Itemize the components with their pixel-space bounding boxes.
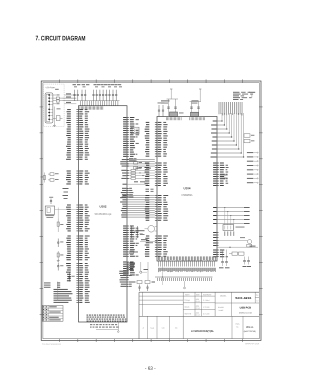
svg-text:U104: U104: [184, 186, 191, 190]
U102 left pin 31: [66, 183, 89, 184]
U104 left pin 47: [145, 251, 168, 252]
U104 right pin 12: [213, 250, 224, 251]
U104 left pin 46: [145, 249, 166, 250]
svg-text:H.S.LEE: H.S.LEE: [203, 307, 210, 309]
title block bottom row texts: [143, 323, 257, 333]
U102 left pin 51: [67, 248, 89, 249]
ladder vertical net labels: [219, 102, 243, 115]
U104 left pin 16: [146, 156, 167, 157]
U102 bottom pin name rows: [87, 315, 127, 322]
left lower vertical wire: [57, 282, 59, 301]
U102 top pin names: [80, 106, 104, 109]
svg-text:SCX-4216: SCX-4216: [235, 296, 251, 300]
U104 left pin 30: [145, 200, 166, 201]
U102 left pin 59: [67, 267, 87, 268]
U102 right pin 6: [123, 128, 134, 129]
U102 right pin 35: [123, 262, 133, 263]
U102 left pin 30: [68, 181, 88, 182]
capacitor C105: [84, 90, 86, 95]
U104 left pin 23: [145, 176, 167, 177]
U102 left pin 64: [67, 278, 88, 279]
corridor filler rows upper: [129, 158, 154, 192]
capacitor C131: [136, 226, 142, 238]
U104 left pin 10: [146, 142, 167, 143]
U102 right pin 39: [123, 270, 134, 271]
svg-text:K.H.LEE: K.H.LEE: [203, 313, 210, 315]
U102 left pin 38: [67, 217, 88, 218]
USB port group dashed outline: [44, 84, 65, 126]
U104 left pin 37: [146, 215, 169, 216]
U102 left pin 5: [67, 118, 88, 119]
U102 bottom wire and test point: [96, 322, 119, 332]
U104 left pin 3: [145, 126, 167, 127]
U102 left pin 58: [66, 265, 88, 266]
U102 left pin 6: [67, 120, 88, 121]
U104 right pin 9: [213, 181, 227, 182]
U102 XTAL wire rows: [120, 159, 155, 166]
U102 right pin 25: [123, 236, 138, 237]
U104 left pin 7: [145, 135, 168, 136]
U102 left pin 2: [67, 111, 90, 112]
U102 left pin 37: [66, 215, 89, 216]
U102 left pin 55: [66, 257, 89, 258]
U104 right pin 15: [213, 256, 228, 257]
U102 right pin 15: [123, 147, 135, 148]
wire USB detect to U102: [64, 103, 76, 105]
wire USB D+ to U102: [63, 100, 77, 102]
U102 left pin 9: [67, 126, 88, 127]
U102 right pin 18: [123, 154, 137, 155]
svg-text:Check: Check: [184, 306, 189, 308]
bottom test point TP1: [184, 281, 186, 289]
U102 left pin 1: [67, 109, 87, 110]
U102 right pin 30: [123, 247, 134, 248]
U102 right pin 16: [123, 149, 133, 150]
U102 left pin 39: [67, 220, 89, 221]
resistor R107: [57, 251, 63, 259]
U104 right pin 7: [213, 176, 224, 177]
svg-text:BOARD: BOARD: [218, 306, 225, 309]
U102 right pin 41: [123, 274, 139, 275]
U104 bottom pin stubs: [159, 261, 215, 267]
capacitor C103: [77, 90, 79, 95]
title block header texts: [184, 293, 211, 316]
U104 left pin 33: [145, 206, 166, 207]
crystal X101 circuit: [167, 89, 179, 117]
U102 right pin 5: [123, 126, 134, 127]
wire USB VBUS to U102: [64, 94, 76, 96]
U104 left pin 28: [145, 195, 168, 196]
U102 left pin 67: [44, 285, 89, 286]
svg-text:2003: 2003: [196, 306, 200, 308]
U102 left pin 19: [67, 148, 88, 149]
U104 left pin 11: [145, 144, 167, 145]
U104 left pin 17: [145, 163, 167, 164]
connector CN101 body: [45, 93, 53, 123]
U102 left pin 45: [67, 236, 89, 237]
U104 left pin 19: [145, 167, 168, 168]
svg-text:NAME: NAME: [219, 309, 224, 312]
U102 right pin 31: [123, 249, 135, 250]
U102 left pin 32: [67, 205, 87, 206]
labels X1 CLKIN: [220, 175, 228, 179]
U102 left pin 24: [66, 159, 88, 160]
U104 left pin 14: [145, 151, 166, 152]
U102 right pin 20: [123, 226, 134, 227]
U102 left pin 22: [66, 154, 89, 155]
U104 left pin 43: [146, 242, 166, 243]
U102 left pin 20: [67, 150, 88, 151]
U102 right pin 36: [123, 264, 135, 265]
U102 left pin 75: [54, 302, 90, 303]
U102 left pin 14: [68, 137, 90, 138]
U104 right pin 1: [213, 163, 224, 164]
svg-text:MODEL: MODEL: [220, 295, 226, 297]
net labels left middle: [63, 188, 69, 199]
capacitor C130: [130, 226, 136, 238]
U104 left pin 48: [145, 254, 167, 255]
capacitor C104: [81, 90, 83, 95]
U102 left pin 8: [67, 124, 88, 125]
U104 left pin 39: [146, 220, 168, 221]
resistor R112: [130, 251, 139, 254]
wire USB D- to U102: [63, 97, 77, 99]
corridor bottom components: [132, 262, 156, 291]
ferrite bead L101 on D- line: [53, 97, 56, 99]
capacitor C102 shell: [56, 116, 60, 121]
title block: [139, 292, 259, 339]
svg-text:2003: 2003: [196, 299, 200, 301]
U104 left pin 4: [145, 129, 167, 130]
capacitors C140 C141: [243, 257, 252, 268]
capacitor C102: [74, 90, 76, 95]
resistor R111 group: [134, 162, 143, 170]
right net label column: [247, 152, 258, 183]
U104 top pin names group A: [166, 117, 181, 120]
capacitor C109: [102, 90, 104, 95]
ferrite filter boxes: [229, 252, 244, 255]
capacitor C120: [57, 239, 63, 248]
switch SW101 box: [45, 206, 54, 218]
resistor array RA104: [223, 225, 245, 231]
U104 right pin 10: [213, 183, 228, 184]
U102 left pin 73: [54, 298, 89, 299]
U102 left pin 17: [67, 144, 88, 145]
USB net labels mid: [66, 93, 71, 103]
U102 left pin 41: [66, 224, 88, 225]
U104 right pin 13: [213, 252, 223, 253]
U102 left pin 35: [67, 211, 88, 212]
capacitor C110: [105, 90, 107, 95]
capacitor C106: [93, 90, 95, 95]
U102 right pin 1: [123, 117, 134, 118]
svg-text:03.14: 03.14: [196, 314, 200, 316]
U102 left pin 47: [67, 240, 88, 241]
U102 right pin 2: [123, 119, 139, 120]
resistor R121: [244, 139, 254, 142]
row cluster below resistor column: [123, 181, 149, 184]
capacitor C107: [96, 90, 98, 95]
U102 left pin 21: [67, 152, 89, 153]
U104 left pin 34: [145, 209, 168, 210]
svg-text:USB PCB: USB PCB: [240, 306, 251, 309]
U102 left pin 16: [67, 142, 87, 143]
svg-text:R01.1.1: R01.1.1: [246, 327, 254, 329]
U104 left pin 25: [145, 181, 167, 182]
U102 left pin 66: [44, 282, 89, 283]
model name text: [220, 294, 259, 302]
svg-text:KS8995MA: KS8995MA: [181, 194, 193, 197]
U102 left pin 72: [54, 295, 90, 296]
U102 left pin 3: [67, 113, 88, 114]
page title: [35, 35, 85, 42]
U104 left pin 22: [146, 174, 166, 175]
U102 right pin 34: [123, 255, 138, 258]
U104 right inner names ladder band: [211, 121, 217, 158]
svg-text:KS0917A 4X16: KS0917A 4X16: [239, 311, 252, 314]
svg-text:2003: 2003: [196, 312, 200, 314]
U104 right address ladder wires: [217, 113, 244, 158]
U104 left pin 13: [145, 149, 165, 150]
crystal X102 circuit: [190, 89, 202, 117]
U102 left pin 63: [67, 276, 88, 277]
resistor R101: [57, 107, 61, 110]
U102 left pin 54: [67, 255, 88, 256]
U102 left pin 29: [66, 179, 88, 180]
U102 left pin 36: [67, 213, 88, 214]
svg-text:USB PORT: USB PORT: [46, 87, 56, 89]
U102 right pin 12: [123, 141, 135, 142]
U102 left pin 68: [44, 287, 89, 288]
U104 right pin 11: [213, 185, 224, 186]
U104 left pin 15: [146, 153, 167, 154]
svg-text:Unit: Unit: [162, 326, 165, 329]
svg-text:7. CIRCUIT DIAGRAM: 7. CIRCUIT DIAGRAM: [35, 35, 85, 42]
svg-text:A: A: [143, 326, 145, 329]
U104 left pin 36: [145, 213, 167, 214]
U102 right pin 13: [123, 143, 139, 144]
resistor pack RP102: [131, 127, 139, 134]
U102 left pin 48: [66, 242, 88, 243]
U104 left pin 38: [145, 218, 167, 219]
resistor R115 row: [140, 239, 157, 243]
U102 left pin 62: [67, 274, 88, 275]
wire VBUS: [53, 94, 56, 96]
U102 right pin 26: [123, 238, 137, 239]
IC U104 body: [157, 117, 217, 262]
U102 inner bottom-right pin names: [119, 271, 131, 287]
U102 right pin 27: [123, 241, 133, 242]
U102 right pin 24: [123, 234, 139, 235]
svg-text:Rev: Rev: [256, 294, 259, 296]
U104 right pin 14: [213, 254, 224, 255]
U104 right pin 5: [213, 172, 228, 173]
U104 left pin 44: [145, 245, 167, 246]
left vertical wire net: [57, 208, 59, 219]
U104 left pin 42: [146, 240, 167, 241]
U102 right pin 40: [123, 272, 135, 273]
svg-text:2003.03: 2003.03: [245, 343, 259, 345]
svg-text:DWG: DWG: [236, 323, 241, 325]
capacitor C113: [115, 90, 117, 95]
U102 left pin 65: [67, 280, 90, 281]
U102 left pin 27: [67, 175, 88, 176]
U102 left pin 69: [54, 289, 88, 290]
U102 left pin 15: [67, 139, 88, 140]
svg-text:03.14: 03.14: [196, 308, 200, 310]
zener ZD101: [49, 197, 53, 204]
U102 left pin 40: [67, 222, 88, 223]
U104 left pin 27: [146, 185, 166, 186]
U102 right pin 19: [123, 156, 133, 157]
U102 left pin 74: [54, 300, 89, 301]
wire GND: [53, 103, 56, 105]
U104 left pin 5: [145, 131, 168, 132]
ground symbol left: [57, 259, 60, 262]
U104 left pin 24: [145, 178, 168, 179]
U102 left pin 7: [66, 122, 87, 123]
U102 left pin 33: [66, 207, 89, 208]
capacitor C111: [109, 90, 111, 95]
U102 left pin 53: [67, 253, 89, 254]
U104 right pin 4: [213, 169, 227, 170]
svg-text:LCS/PAFH/KS(Y)SL: LCS/PAFH/KS(Y)SL: [191, 330, 215, 333]
svg-text:U102: U102: [100, 204, 107, 208]
U102 right pin 9: [123, 134, 139, 135]
U102 right pin 7: [123, 130, 138, 131]
LED wires block: [213, 207, 250, 225]
U102 right pin 38: [123, 268, 133, 269]
U104 left pin 41: [145, 238, 166, 239]
U104 right pin 2: [213, 165, 228, 166]
U102 left pin 26: [67, 173, 90, 174]
U102 right pin 21: [123, 228, 138, 229]
resistor R120: [244, 134, 254, 137]
crystal X101 group labels: [161, 100, 170, 103]
wire transistor output: [217, 246, 258, 248]
U104 left pin 32: [146, 204, 168, 205]
U102 right rows 188-198: [121, 188, 134, 198]
U102 left pin 23: [67, 157, 87, 158]
svg-text:Service Manual / Samsung Elect: Service Manual / Samsung Electronics: [42, 343, 61, 346]
U102 bottom outside labels: [90, 324, 119, 327]
U104 left pin 49: [145, 256, 166, 257]
ground symbol below connector: [53, 124, 55, 127]
U102 left pin 42: [67, 226, 87, 227]
U104 left pin 1: [146, 122, 166, 123]
U102 right pin 17: [123, 152, 134, 153]
U104 left pin 20: [145, 169, 168, 170]
U102 right pin 11: [123, 139, 134, 140]
corridor lower label rows: [127, 263, 135, 270]
transistor Q101 circuit: [217, 237, 252, 247]
U102-U104 data bus wires: [127, 196, 155, 218]
power rail above U102: [73, 100, 120, 102]
U104 left pin 45: [146, 247, 166, 248]
ferrite bead L102 on D+ line: [53, 100, 56, 102]
svg-text:S3C4510B01-QE: S3C4510B01-QE: [94, 214, 112, 216]
U102 left pin 50: [67, 246, 88, 247]
decoupling capacitor row labels: [73, 84, 123, 87]
U104 left pin 2: [146, 124, 168, 125]
X101 value label: [179, 112, 184, 115]
U104 left pin 12: [146, 147, 167, 148]
capacitor C136 C137 pair: [158, 103, 165, 117]
U102 left pin 61: [66, 272, 89, 273]
series resistor column R116-R119: [121, 168, 154, 180]
U104 right pin 8: [213, 178, 228, 179]
U102 left pin 4: [67, 116, 88, 117]
bottom bus wire: [155, 276, 213, 278]
U102 right pin 4: [123, 123, 138, 124]
U104 left pin 29: [145, 197, 166, 198]
U104 left pin 21: [145, 172, 168, 173]
svg-text:- 63 -: - 63 -: [145, 366, 156, 371]
crystal X102 group labels: [192, 100, 199, 103]
U104 right pin 3: [213, 167, 228, 168]
U102 right pin 37: [123, 266, 135, 267]
U102 right pin 29: [123, 245, 137, 246]
label VDD33 top right: [249, 92, 255, 98]
wire SW101 to U102: [55, 209, 77, 211]
U102 right pin 32: [123, 251, 138, 252]
U102 left pin 49: [67, 244, 88, 245]
U102 left pin 10: [67, 129, 90, 130]
U102 right pin 14: [123, 145, 134, 146]
U102 left pin 12: [67, 133, 89, 134]
U104 left pin 9: [146, 140, 168, 141]
U104 left pin 26: [145, 183, 168, 184]
U102 right pin 8: [123, 132, 139, 133]
resistor R104: [41, 173, 46, 183]
U102 left pin 25: [67, 171, 89, 172]
svg-text:1.0: 1.0: [256, 300, 258, 302]
U104 bottom pin names: [158, 256, 216, 260]
svg-text:(MFP72C50): (MFP72C50): [244, 331, 256, 333]
svg-text:mm: mm: [175, 327, 178, 329]
U102 left pin 11: [67, 131, 89, 132]
bottom bus tick labels: [157, 278, 212, 281]
U104 left pin 8: [145, 138, 167, 139]
U102 right pin 23: [123, 232, 138, 233]
label C101: [55, 89, 59, 90]
U102 left pin 28: [66, 177, 89, 178]
CN101 pin pads: [48, 94, 53, 120]
U102 left pin 46: [66, 238, 87, 239]
option settings table: [42, 306, 63, 322]
svg-text:Sign/Name: Sign/Name: [203, 294, 211, 296]
U104 left pin 6: [146, 133, 167, 134]
IC U102 body: [79, 106, 128, 322]
top right net label rows: [233, 92, 253, 100]
U104 right inner names lower: [213, 232, 219, 246]
U104 left pin 31: [146, 202, 167, 203]
resistor R106: [57, 219, 63, 233]
svg-text:Name: Name: [185, 294, 190, 296]
U102 left pin 60: [67, 269, 89, 270]
U102 right pin 33: [123, 254, 133, 255]
svg-text:Approval: Approval: [184, 312, 191, 315]
svg-text:C.J.Med: C.J.Med: [203, 300, 209, 302]
U102 left pin 44: [68, 230, 89, 231]
U102 right pin 22: [123, 230, 139, 231]
svg-text:Date: Date: [196, 293, 200, 296]
diode D101 group: [48, 173, 59, 181]
capacitor C108: [99, 90, 101, 95]
U102 left pin 71: [54, 293, 89, 294]
svg-text:No.: No.: [236, 326, 239, 328]
U102 right pin 28: [123, 243, 139, 244]
